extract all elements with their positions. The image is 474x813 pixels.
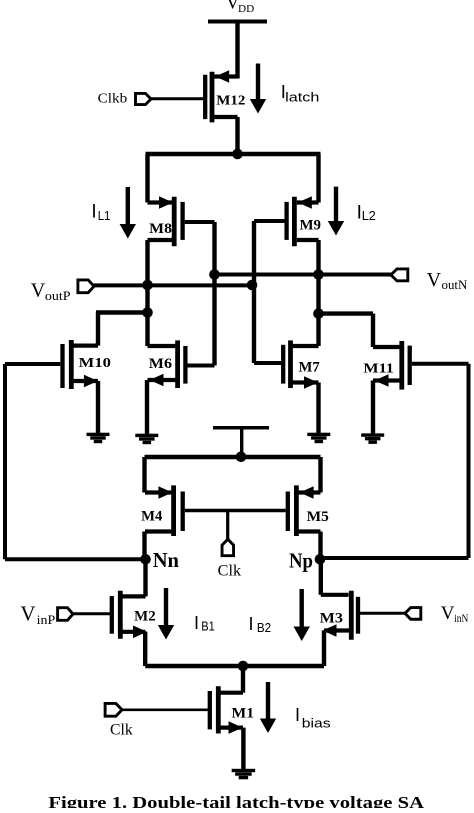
- transistor M9: [287, 196, 319, 246]
- wire M10 gate to Nn: [5, 364, 146, 559]
- junction VoutP-M9gate: [247, 280, 258, 291]
- svg-text:M12: M12: [216, 94, 245, 109]
- wire VDD to M12 source: [235, 22, 239, 79]
- node Np: [315, 554, 326, 565]
- transistor M11: [373, 341, 410, 390]
- wire M9 gate cross-couple: [254, 221, 287, 363]
- pin VinP: [58, 608, 73, 621]
- junction VoutP-M8drain: [142, 280, 153, 291]
- junction left drain node: [142, 307, 153, 318]
- svg-text:Clk: Clk: [218, 562, 242, 579]
- pin Clk latch stage: [222, 539, 234, 556]
- label M8: [149, 221, 172, 237]
- ground under M11: [361, 381, 384, 444]
- svg-text:V: V: [31, 279, 46, 301]
- current arrow I_L2: [328, 187, 344, 236]
- caption Figure 1: [48, 793, 424, 812]
- wire first stage supply rail: [145, 457, 321, 493]
- current arrow I_L1: [120, 187, 136, 239]
- svg-text:B1: B1: [201, 619, 215, 634]
- label M2: [134, 608, 156, 624]
- wire M4 drain to Nn: [142, 532, 146, 560]
- svg-text:latch: latch: [285, 89, 319, 104]
- svg-text:Nn: Nn: [153, 548, 180, 572]
- svg-text:M8: M8: [149, 221, 172, 237]
- svg-text:bias: bias: [302, 716, 331, 731]
- svg-text:Clk: Clk: [110, 722, 133, 739]
- transistor M4: [145, 485, 183, 536]
- pin Clkb: [136, 93, 152, 104]
- svg-text:Figure 1. Double-tail latch-ty: Figure 1. Double-tail latch-type voltage…: [48, 793, 424, 808]
- power VDD bar: [208, 20, 267, 24]
- junction VoutN-M8gate: [209, 269, 220, 280]
- wire VoutN column to drain junction: [316, 275, 320, 347]
- label M7: [299, 359, 320, 375]
- label VinP: [20, 602, 55, 628]
- wire M3 source to tail: [322, 631, 326, 667]
- wire M5 drain to Np: [318, 532, 322, 560]
- pin VinN: [405, 608, 421, 620]
- wire Np to M3 drain: [321, 559, 349, 595]
- svg-text:Clkb: Clkb: [98, 92, 128, 107]
- svg-text:DD: DD: [238, 4, 255, 15]
- label I_L2: [357, 202, 376, 223]
- junction below M12: [232, 149, 243, 160]
- label VinN: [441, 603, 469, 625]
- wire VoutP line: [94, 283, 257, 287]
- current arrow I_bias: [260, 682, 276, 733]
- svg-text:I: I: [91, 201, 96, 222]
- junction tail node: [238, 661, 249, 672]
- svg-text:V: V: [441, 603, 455, 624]
- transistor M10: [63, 340, 99, 389]
- svg-text:M3: M3: [320, 611, 343, 627]
- wire M10 drain branch: [96, 313, 149, 346]
- ground main: [232, 769, 256, 780]
- svg-text:M6: M6: [149, 356, 172, 372]
- label M9: [300, 218, 322, 234]
- node VDD label: [226, 0, 255, 15]
- wire tail to M1 drain: [220, 666, 243, 693]
- wire M11 gate to Np: [320, 364, 469, 558]
- svg-text:Np: Np: [289, 549, 313, 573]
- svg-text:V: V: [20, 602, 35, 626]
- label VoutP: [31, 279, 71, 303]
- wire Nn to M2 drain: [122, 559, 146, 596]
- label I_bias: [295, 705, 331, 731]
- svg-text:L2: L2: [362, 208, 376, 223]
- node Nn: [140, 554, 151, 565]
- svg-text:M5: M5: [307, 509, 329, 525]
- label Clk mid: [218, 562, 242, 579]
- label Np: [289, 549, 313, 573]
- transistor M12: [205, 70, 237, 122]
- svg-text:M4: M4: [141, 509, 162, 525]
- wire VinN to M3 gate: [360, 612, 405, 615]
- label M3: [320, 611, 343, 627]
- wire Clkb to M12 gate: [151, 97, 204, 100]
- svg-text:B2: B2: [257, 620, 271, 635]
- current arrow I_B2: [294, 589, 310, 641]
- wire M1 source to ground: [241, 728, 245, 769]
- wire M6 gate hook: [188, 364, 215, 368]
- current arrow I_B1: [158, 588, 174, 640]
- svg-text:inN: inN: [454, 613, 469, 625]
- junction VoutN-M9drain: [313, 269, 324, 280]
- svg-text:outN: outN: [442, 278, 468, 292]
- svg-text:I: I: [249, 614, 254, 634]
- transistor M1: [210, 686, 243, 734]
- wire VoutP column to drain junction: [145, 285, 149, 346]
- svg-text:M1: M1: [232, 706, 255, 722]
- wire M9 drain to VoutN: [316, 240, 320, 275]
- ground under M7: [307, 383, 330, 444]
- label M6: [149, 356, 172, 372]
- transistor M5: [288, 485, 321, 536]
- svg-text:inP: inP: [37, 613, 56, 627]
- label M12: [216, 94, 245, 109]
- label Clkb: [98, 92, 128, 107]
- ground under M6: [135, 380, 158, 444]
- label M4: [141, 509, 162, 525]
- pin Clk bottom: [105, 703, 122, 716]
- wire tail rail: [145, 664, 324, 668]
- junction supply rail: [236, 452, 247, 463]
- label M1: [232, 706, 255, 722]
- wire M8 drain to VoutP: [145, 240, 149, 285]
- pin VoutN: [391, 269, 408, 281]
- current arrow I_latch: [250, 64, 266, 114]
- wire M12 drain to latch rail: [235, 117, 239, 156]
- label VoutN: [427, 269, 468, 292]
- wire VoutN line: [212, 273, 391, 277]
- svg-text:L1: L1: [98, 208, 111, 223]
- wire M11 drain branch: [317, 314, 373, 347]
- svg-text:I: I: [194, 613, 199, 633]
- svg-text:M10: M10: [79, 356, 111, 371]
- wire M8 gate cross-couple: [185, 222, 215, 366]
- wire M2 source to tail: [143, 632, 147, 666]
- label I_B2: [249, 614, 272, 635]
- transistor M6: [148, 340, 186, 388]
- svg-text:outP: outP: [45, 289, 71, 303]
- wire M4 M5 gate link: [185, 511, 286, 540]
- svg-text:M11: M11: [363, 362, 393, 377]
- label M10: [79, 356, 111, 371]
- wire latch supply rail: [146, 154, 321, 203]
- label I_B1: [194, 613, 215, 634]
- svg-text:I: I: [295, 705, 300, 725]
- svg-text:M7: M7: [299, 359, 320, 375]
- svg-text:M2: M2: [134, 608, 156, 624]
- label Clk bottom: [110, 722, 133, 739]
- label I_L1: [91, 201, 110, 223]
- transistor M2: [112, 591, 147, 639]
- svg-text:V: V: [427, 269, 442, 291]
- wire Clk to M1 gate: [122, 708, 208, 711]
- wire VinP to M2 gate: [73, 612, 110, 615]
- label M11: [363, 362, 393, 377]
- junction right drain node: [313, 308, 324, 319]
- label M5: [307, 509, 329, 525]
- label Nn: [153, 548, 180, 572]
- transistor M8: [148, 196, 183, 246]
- wire M7 gate hook: [254, 361, 283, 365]
- power bar second stage: [213, 428, 269, 457]
- transistor M3: [323, 591, 359, 640]
- transistor M7: [283, 340, 318, 388]
- svg-text:M9: M9: [300, 218, 322, 234]
- ground under M10: [87, 381, 110, 443]
- pin VoutP: [78, 280, 94, 293]
- label I_latch: [281, 81, 320, 104]
